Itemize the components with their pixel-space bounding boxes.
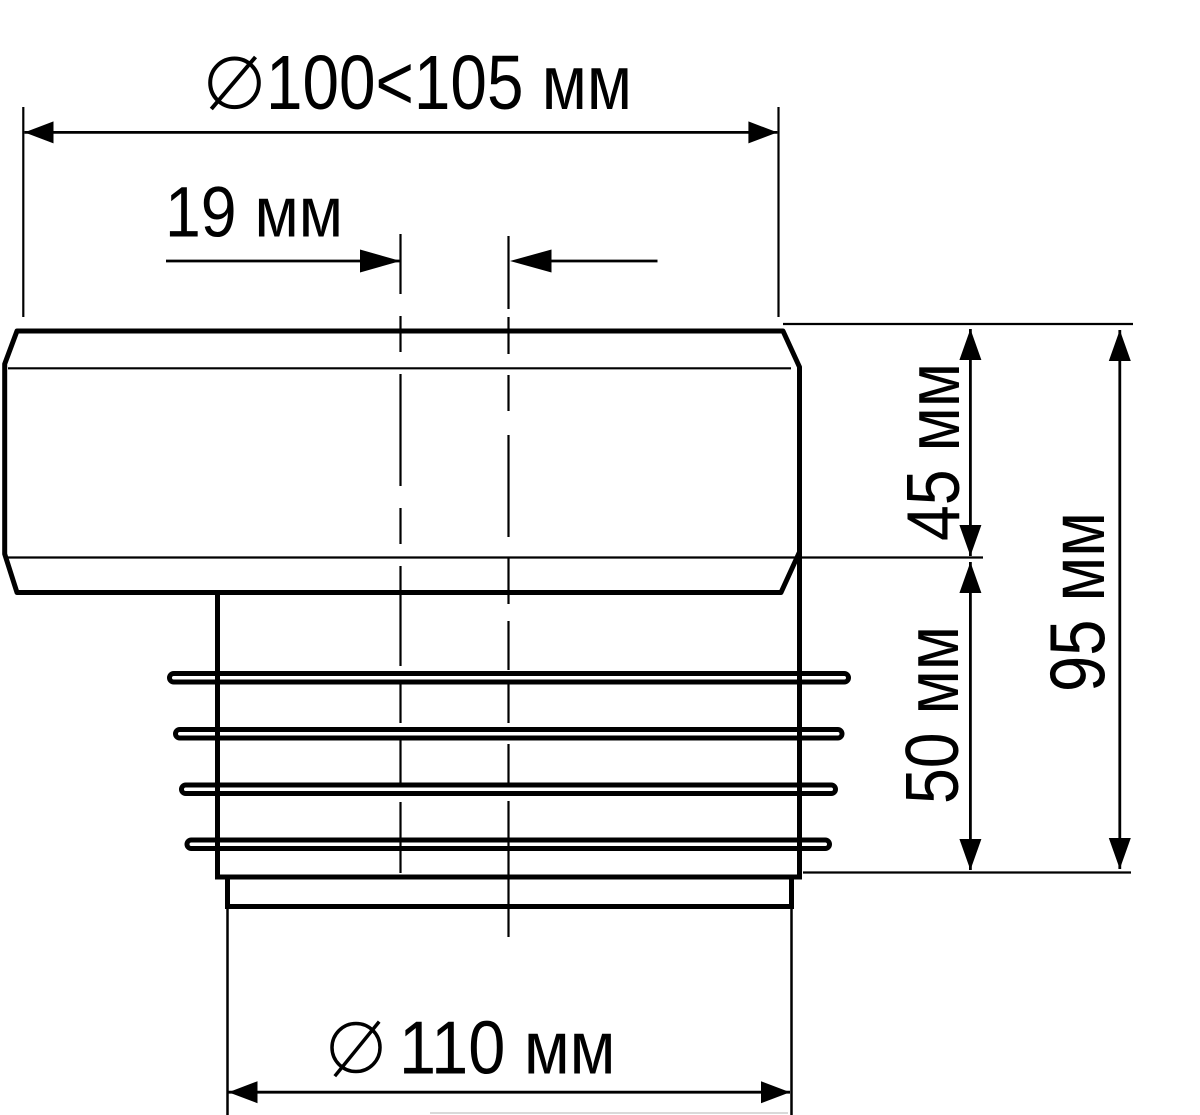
dimension D100-105 arrow left (25, 121, 54, 143)
rib 4 (187, 840, 830, 849)
dimension 95 line (1118, 330, 1121, 869)
outlet step right wall (789, 877, 794, 907)
svg-text:45 мм: 45 мм (891, 363, 975, 541)
dimension D100-105 diameter symbol (210, 57, 259, 109)
outlet pipe left wall (226, 907, 229, 1115)
dimension 50 arrow top (959, 562, 981, 593)
svg-text:100<105 мм: 100<105 мм (266, 40, 632, 126)
dimension D110 arrow left (229, 1081, 258, 1103)
extension line bottom right for 50 and 95 (803, 871, 1131, 873)
dimension D100-105 arrow right (748, 121, 777, 143)
rib 1 (170, 674, 849, 683)
dimension D110 diameter symbol (332, 1022, 380, 1077)
dimension 95 arrow bottom (1109, 838, 1131, 869)
outlet step bottom line (225, 904, 794, 909)
dimension D100-105 extension line right (777, 107, 779, 317)
corrugation left wall (215, 595, 220, 877)
centerline body axis (399, 234, 401, 873)
body inner top chamfer line (8, 367, 791, 369)
outlet step left wall (225, 877, 230, 907)
dimension 19 line right (552, 260, 658, 263)
dimension 45 arrow bottom (959, 525, 981, 556)
dimension 95 arrow top (1109, 330, 1131, 361)
rib 3 (182, 785, 836, 794)
dimension 50 arrow bottom (959, 839, 981, 870)
extension line top right for 45 and 95 (783, 323, 1133, 325)
svg-text:95 мм: 95 мм (1033, 512, 1121, 692)
dimension D100-105 extension line left (22, 107, 24, 317)
svg-text:19 мм: 19 мм (165, 174, 343, 253)
body octagon outline (5, 331, 800, 593)
faint cut edge at bottom (430, 1112, 788, 1114)
dimension 45 arrow top (959, 329, 981, 360)
dimension 19 arrow right (510, 250, 552, 273)
dimension 50 line (969, 562, 972, 870)
corrugation right wall (797, 552, 802, 877)
outlet pipe right wall (790, 907, 793, 1115)
dimension D110 line (229, 1091, 791, 1094)
rib 2 (176, 730, 843, 739)
body inner bottom chamfer line extended right as extension line (8, 556, 983, 558)
dimension 19 arrow left (360, 250, 401, 273)
dimension 19 line left (166, 260, 401, 263)
svg-text:50 мм: 50 мм (890, 626, 974, 804)
dimension D100-105 line (25, 131, 778, 134)
dimension D110 arrow right (761, 1081, 790, 1103)
corrugation bottom line (215, 875, 802, 880)
centerline outlet axis (507, 236, 509, 937)
dimension 45 line (969, 329, 972, 556)
svg-text:110 мм: 110 мм (399, 1006, 616, 1090)
